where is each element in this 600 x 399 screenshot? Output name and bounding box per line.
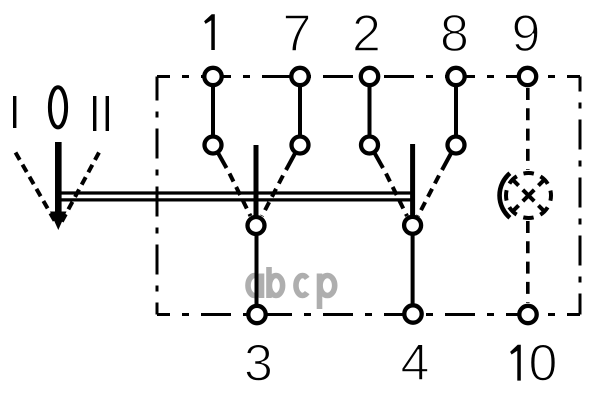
actuator lever arrowhead xyxy=(50,212,67,231)
wire terminal 2 to contact xyxy=(368,80,372,142)
actuator lever shaft xyxy=(55,142,62,212)
contact stub from contact 2 xyxy=(374,152,383,168)
terminal 7 xyxy=(291,68,308,85)
fixed contact of terminal 7 xyxy=(292,137,309,154)
actuator coupling bar lower line xyxy=(56,198,413,201)
actuator coupling bar upper line xyxy=(56,191,413,194)
position label I xyxy=(13,96,16,128)
enclosure box right border xyxy=(579,77,582,315)
label 1 xyxy=(204,14,215,50)
svg-text:0: 0 xyxy=(529,335,558,393)
fixed contact of terminal 2 xyxy=(361,137,378,154)
wire pivot 3 to terminal 3 xyxy=(255,233,259,307)
dashed travel line to position I xyxy=(16,153,57,224)
dashed throw path contact 2 to pivot 4 xyxy=(386,174,407,217)
fixed contact of terminal 8 xyxy=(448,137,465,154)
dashed wire lamp to terminal 10 xyxy=(526,221,530,303)
wire terminal 1 to contact xyxy=(211,80,215,142)
dashed throw path contact 7 to pivot 3 xyxy=(262,176,283,217)
terminal 1 xyxy=(204,68,221,85)
terminal 10 xyxy=(519,306,536,323)
pivot contact of pole 3 xyxy=(248,217,265,234)
terminal 2 xyxy=(361,68,378,85)
terminal 9 xyxy=(519,68,536,85)
terminal 8 xyxy=(447,68,464,85)
svg-text:9: 9 xyxy=(512,5,541,63)
wire terminal 8 to contact xyxy=(454,80,458,142)
svg-text:2: 2 xyxy=(352,5,381,63)
svg-text:4: 4 xyxy=(401,334,430,392)
moving contact arm of pole 4 xyxy=(410,144,415,218)
illumination lamp dashed circle xyxy=(506,173,551,218)
dashed wire terminal 9 to lamp xyxy=(526,88,530,170)
contact stub from contact 7 xyxy=(286,153,296,171)
terminal 3 xyxy=(248,306,265,323)
watermark abcp logo xyxy=(248,267,335,309)
svg-text:8: 8 xyxy=(440,5,469,63)
dashed throw path contact 1 to pivot 3 xyxy=(230,174,251,217)
position label 0 xyxy=(50,87,66,127)
fixed contact of terminal 1 xyxy=(205,137,222,154)
enclosure box left border xyxy=(156,77,159,315)
label 10 digit 1 xyxy=(510,345,521,381)
position label II xyxy=(93,96,109,131)
wire terminal 7 to contact xyxy=(298,80,302,142)
enclosure box bottom border xyxy=(157,313,580,316)
illumination lamp X filament xyxy=(513,180,543,210)
lamp reflector arc xyxy=(500,173,510,217)
svg-text:3: 3 xyxy=(244,335,273,393)
contact stub from contact 8 xyxy=(442,153,452,171)
dashed travel line to position II xyxy=(61,153,99,224)
contact stub from contact 1 xyxy=(218,152,227,168)
enclosure box top border xyxy=(157,75,580,78)
moving contact arm of pole 3 xyxy=(254,145,259,218)
svg-text:7: 7 xyxy=(283,5,312,63)
wire pivot 4 to terminal 4 xyxy=(411,233,415,305)
dashed throw path contact 8 to pivot 4 xyxy=(418,176,439,217)
pivot contact of pole 4 xyxy=(404,217,421,234)
terminal 4 xyxy=(404,305,421,322)
